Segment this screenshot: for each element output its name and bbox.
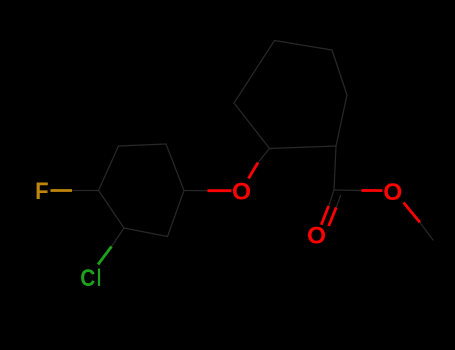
- wire ring-left edge V5-V6: [124, 228, 168, 237]
- wire ring-right edge W4-W5: [332, 50, 347, 95]
- bond Cl-C carbon half (gray): [112, 228, 125, 247]
- svg-text:O: O: [383, 179, 402, 206]
- bond ringR-C(=O) ester stub (gray): [334, 146, 336, 190]
- bond O-CH3 oxygen half (red): [404, 203, 421, 223]
- atom label Cl: [80, 263, 100, 291]
- C=O double bond second line carbon half (gray): [336, 195, 340, 207]
- bond C-O single oxygen half (red): [362, 189, 383, 192]
- wire ring-left edge V1-V2: [99, 146, 119, 191]
- C=O double bond second line oxygen half (red): [329, 208, 337, 227]
- benzene ring left (3-chloro-4-fluorophenyl): [99, 144, 185, 237]
- bond Cl-C chlorine half (green): [98, 247, 112, 265]
- bond O-ringR oxygen half (red): [249, 163, 259, 179]
- wire ring-left edge V3-V4: [166, 144, 184, 191]
- wire ring-right edge W3-W4: [275, 41, 333, 51]
- svg-text:F: F: [35, 177, 48, 204]
- svg-text:O: O: [307, 223, 326, 250]
- wire ring-left edge V6-V1: [99, 191, 125, 229]
- bond F-C carbon half (gray): [72, 190, 99, 192]
- svg-text:C: C: [80, 263, 95, 291]
- bond O-ringR carbon half (gray): [258, 149, 270, 163]
- wire ring-left edge V4-V5: [168, 191, 185, 237]
- bond ringL-O carbon half (gray): [184, 190, 208, 192]
- bond C-O single carbon half (gray): [334, 189, 362, 192]
- svg-text:O: O: [232, 178, 251, 205]
- C=O double bond main line carbon half (gray): [329, 190, 334, 206]
- wire ring-right edge W5-W6: [336, 95, 347, 146]
- wire ring-right edge W6-W1: [270, 146, 337, 149]
- bond O-CH3 methyl half (gray): [420, 223, 433, 241]
- wire ring-right edge W2-W3: [234, 41, 275, 104]
- wire ring-left edge V2-V3: [119, 144, 167, 146]
- wire ring-right edge W1-W2: [234, 103, 270, 149]
- bond F-C fluorine half (golden): [51, 189, 73, 192]
- bond ringL-O oxygen half (red): [208, 189, 232, 192]
- benzene ring right (benzoate ring): [234, 41, 347, 149]
- C=O double bond main line oxygen half (red): [321, 206, 328, 225]
